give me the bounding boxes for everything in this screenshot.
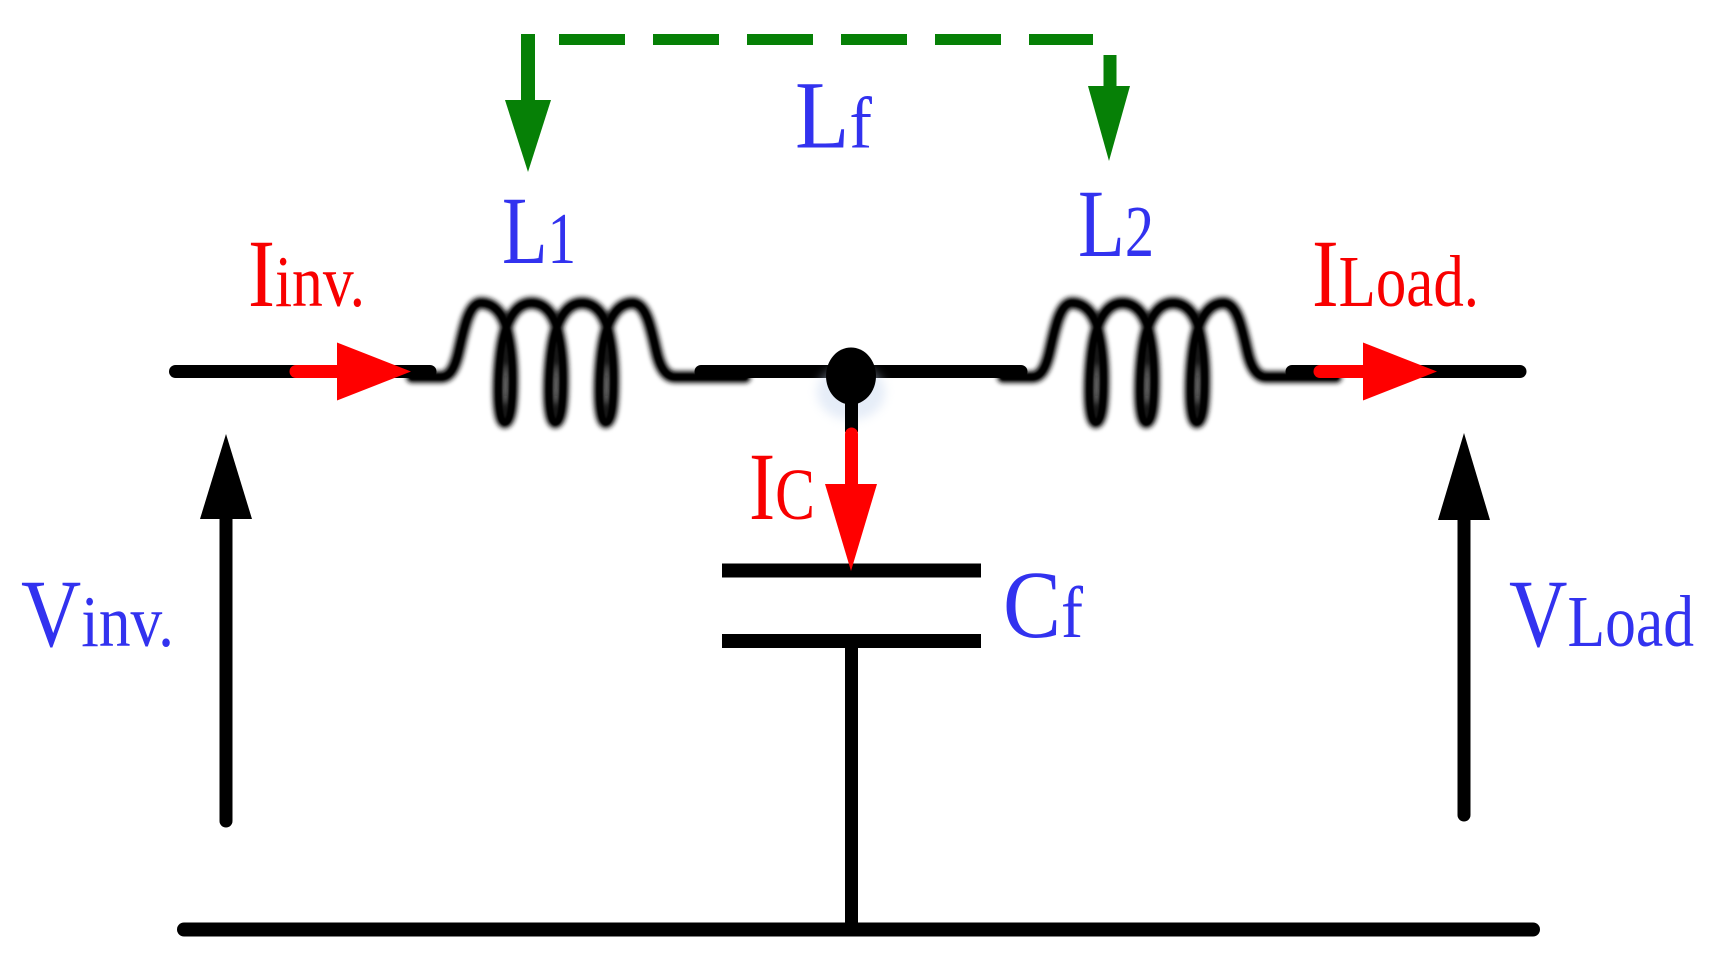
capacitor Cf bottom plate — [722, 634, 981, 648]
current arrow ILoad (red) — [1320, 365, 1368, 378]
ground/bottom rail — [184, 923, 1533, 937]
node stub down — [845, 398, 858, 432]
current arrow Iinv (red) — [296, 365, 342, 378]
wire right segment — [1292, 365, 1520, 378]
current arrow IC (red, down) — [845, 434, 858, 492]
node junction dot — [826, 348, 876, 405]
inductor L2 — [1003, 303, 1336, 422]
node glow — [817, 364, 885, 420]
inductor L1 — [412, 303, 745, 422]
wire middle segment — [701, 365, 1021, 378]
voltage arrow Vinv (black, up) — [220, 518, 233, 821]
capacitor bottom stub wire — [845, 648, 858, 929]
green arrow right (down) — [1104, 55, 1117, 90]
wire left segment — [176, 365, 431, 378]
green arrow left (down) — [521, 34, 535, 104]
capacitor Cf top plate — [722, 564, 981, 578]
voltage arrow VLoad (black, up) — [1458, 519, 1471, 815]
green dashed coupling line Lf — [559, 34, 1093, 45]
